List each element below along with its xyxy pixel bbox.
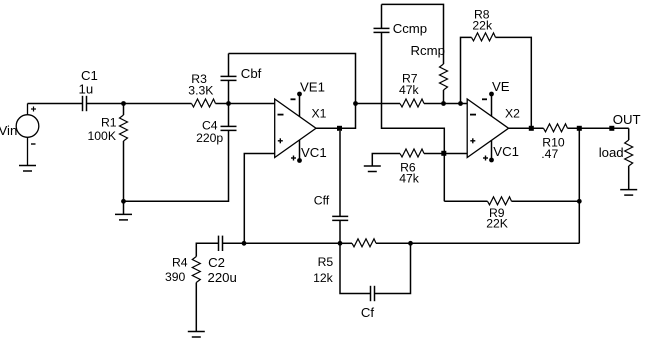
svg-text:R4: R4 [172,256,188,270]
node R5 right junction [408,241,413,246]
pin VC1 X1 supply [299,140,301,161]
wire R4 bottom [195,283,197,332]
node X2 noninverting junction (square) [441,151,446,156]
capacitor C4 [221,126,237,130]
svg-text:Rcmp: Rcmp [411,43,445,58]
resistor R1 [120,115,128,141]
svg-text:C1: C1 [81,68,98,83]
resistor R8 [472,33,496,41]
wire noninverting node down to R9 [443,154,445,202]
ground below R1 [115,214,132,220]
svg-text:VE1: VE1 [300,79,325,94]
wire R5 left stub [340,242,352,244]
svg-text:VE: VE [492,79,510,94]
ground at R6 [364,166,381,172]
wire Ccmp bottom to X2 noninverting node [382,32,445,153]
wire Cbf bottom stub [228,80,230,103]
svg-text:1u: 1u [79,82,94,97]
wire Cff top stub [339,131,341,217]
wire R8 loop right [496,37,532,128]
wire Ccmp top loop [382,4,444,64]
svg-text:47k: 47k [399,171,420,185]
op-amp X2 [467,99,508,158]
capacitor C2 [219,236,223,251]
wire output feedback down [578,128,580,243]
wire Cf loop left [340,243,371,293]
svg-text:Cbf: Cbf [241,66,262,81]
resistor Rcmp [440,64,448,90]
svg-text:22k: 22k [472,19,493,33]
svg-text:VC1: VC1 [301,145,327,160]
Vin minus mark [31,143,36,145]
pin VE1 X1 supply [299,94,301,117]
ground below load [620,190,637,196]
wire bottom rail C2 to R5 [223,242,341,244]
ground below Vin [19,166,36,172]
capacitor Cbf [221,76,237,80]
resistor load [625,140,633,166]
wire R9 right [512,200,580,202]
svg-text:Cff: Cff [314,194,330,208]
wire Cbf top stub [228,54,230,77]
node R1 bottom junction [121,199,126,204]
ground below R4 [188,332,205,338]
wire Ccmp top stub [381,4,383,28]
VC1 plus mark [291,156,296,161]
svg-text:47k: 47k [399,83,420,97]
X2 inverting input mark [470,114,476,116]
svg-text:3.3K: 3.3K [188,84,213,98]
pin VC1 X2 supply [491,140,493,160]
wire main top to R7 [356,103,401,105]
X1 non-inverting input mark [278,138,283,143]
wire load bottom [628,166,630,190]
node X1 noninverting bottom junction [242,241,247,246]
svg-text:390: 390 [165,270,186,284]
wire X1 noninverting input to bottom rail [244,154,274,244]
resistor R4 [192,257,200,283]
wire X1 output to node [316,104,356,129]
wire C1 to R3 (node A) [87,103,192,105]
wire R9 left [444,200,487,202]
node R8 bottom junction [458,101,463,106]
svg-text:12k: 12k [313,271,334,285]
wire R1 bottom to C4 bottom [124,130,229,201]
node R9 right junction [577,199,582,204]
resistor R10 [544,124,568,132]
svg-text:R5: R5 [318,255,334,269]
capacitor Cff [332,216,348,220]
capacitor Cf [371,286,375,301]
wire X2 output [509,127,544,129]
svg-text:C2: C2 [208,255,225,270]
svg-text:VC1: VC1 [493,144,519,159]
voltage source Vin [16,104,39,166]
node X1 output (square) [337,126,342,131]
wire R5 right stub [376,242,411,244]
wire R3 to X1 inverting input (node B) [216,103,275,105]
node A junction C1/R1/R3 [121,101,126,106]
resistor R6 [400,149,424,157]
resistor R7 [400,99,424,107]
resistor R5 [352,239,376,247]
node X1 feedback junction [353,101,358,106]
wire Cf loop right [375,243,411,293]
node B junction R3/Cbf/C4 [226,101,231,106]
resistor R3 [192,99,216,107]
svg-text:100K: 100K [88,129,116,143]
wire R1 ground stub [123,201,125,214]
wire Vin to C1 [28,103,83,105]
wire R1 top stub [123,104,125,116]
wire R7 to X2 inverting input [424,103,467,105]
X2 non-inverting input mark [470,138,475,143]
capacitor C1 [83,96,87,111]
wire R10 to OUT [568,127,629,129]
svg-text:R1: R1 [101,115,117,129]
wire R6 ground corner [372,154,400,166]
pin VE X2 supply [491,94,493,117]
svg-text:load: load [599,145,624,160]
node Cff bottom junction [338,241,343,246]
wire Rcmp bottom stub [443,90,445,104]
X1 inverting input mark [278,114,284,116]
svg-text:220p: 220p [196,131,223,145]
VE minus mark [482,98,487,100]
wire R8 loop left [461,37,472,103]
svg-text:OUT: OUT [613,112,641,127]
svg-text:.47: .47 [541,147,558,161]
node X2 output (square) [529,126,534,131]
wire R1 bottom stub [123,141,125,201]
wire feedback top X1 [229,54,356,104]
wire Cff bottom stub [339,220,341,243]
node OUT (square) [609,126,614,131]
resistor R9 [488,197,512,205]
Vin plus mark [31,107,36,112]
op-amp X1 [275,99,316,158]
node Rcmp bottom junction [441,101,446,106]
svg-text:Cf: Cf [361,305,375,320]
wire R6 to X2 noninverting input [424,153,467,155]
wire load top [628,128,630,140]
svg-text:Vin: Vin [0,123,17,138]
svg-text:220u: 220u [208,270,237,285]
wire bottom rail right of R5 [411,242,580,244]
svg-text:X1: X1 [312,107,327,121]
wire bottom rail left of C2 [196,243,218,256]
VC1 plus mark (X2) [483,156,488,161]
svg-text:22K: 22K [486,216,508,230]
capacitor Ccmp [374,28,390,32]
svg-text:X2: X2 [505,106,520,120]
svg-text:Ccmp: Ccmp [393,21,427,36]
node feedback takeoff (square) [577,126,582,131]
VE1 minus mark [291,98,296,100]
wire C4 top stub [228,104,230,127]
